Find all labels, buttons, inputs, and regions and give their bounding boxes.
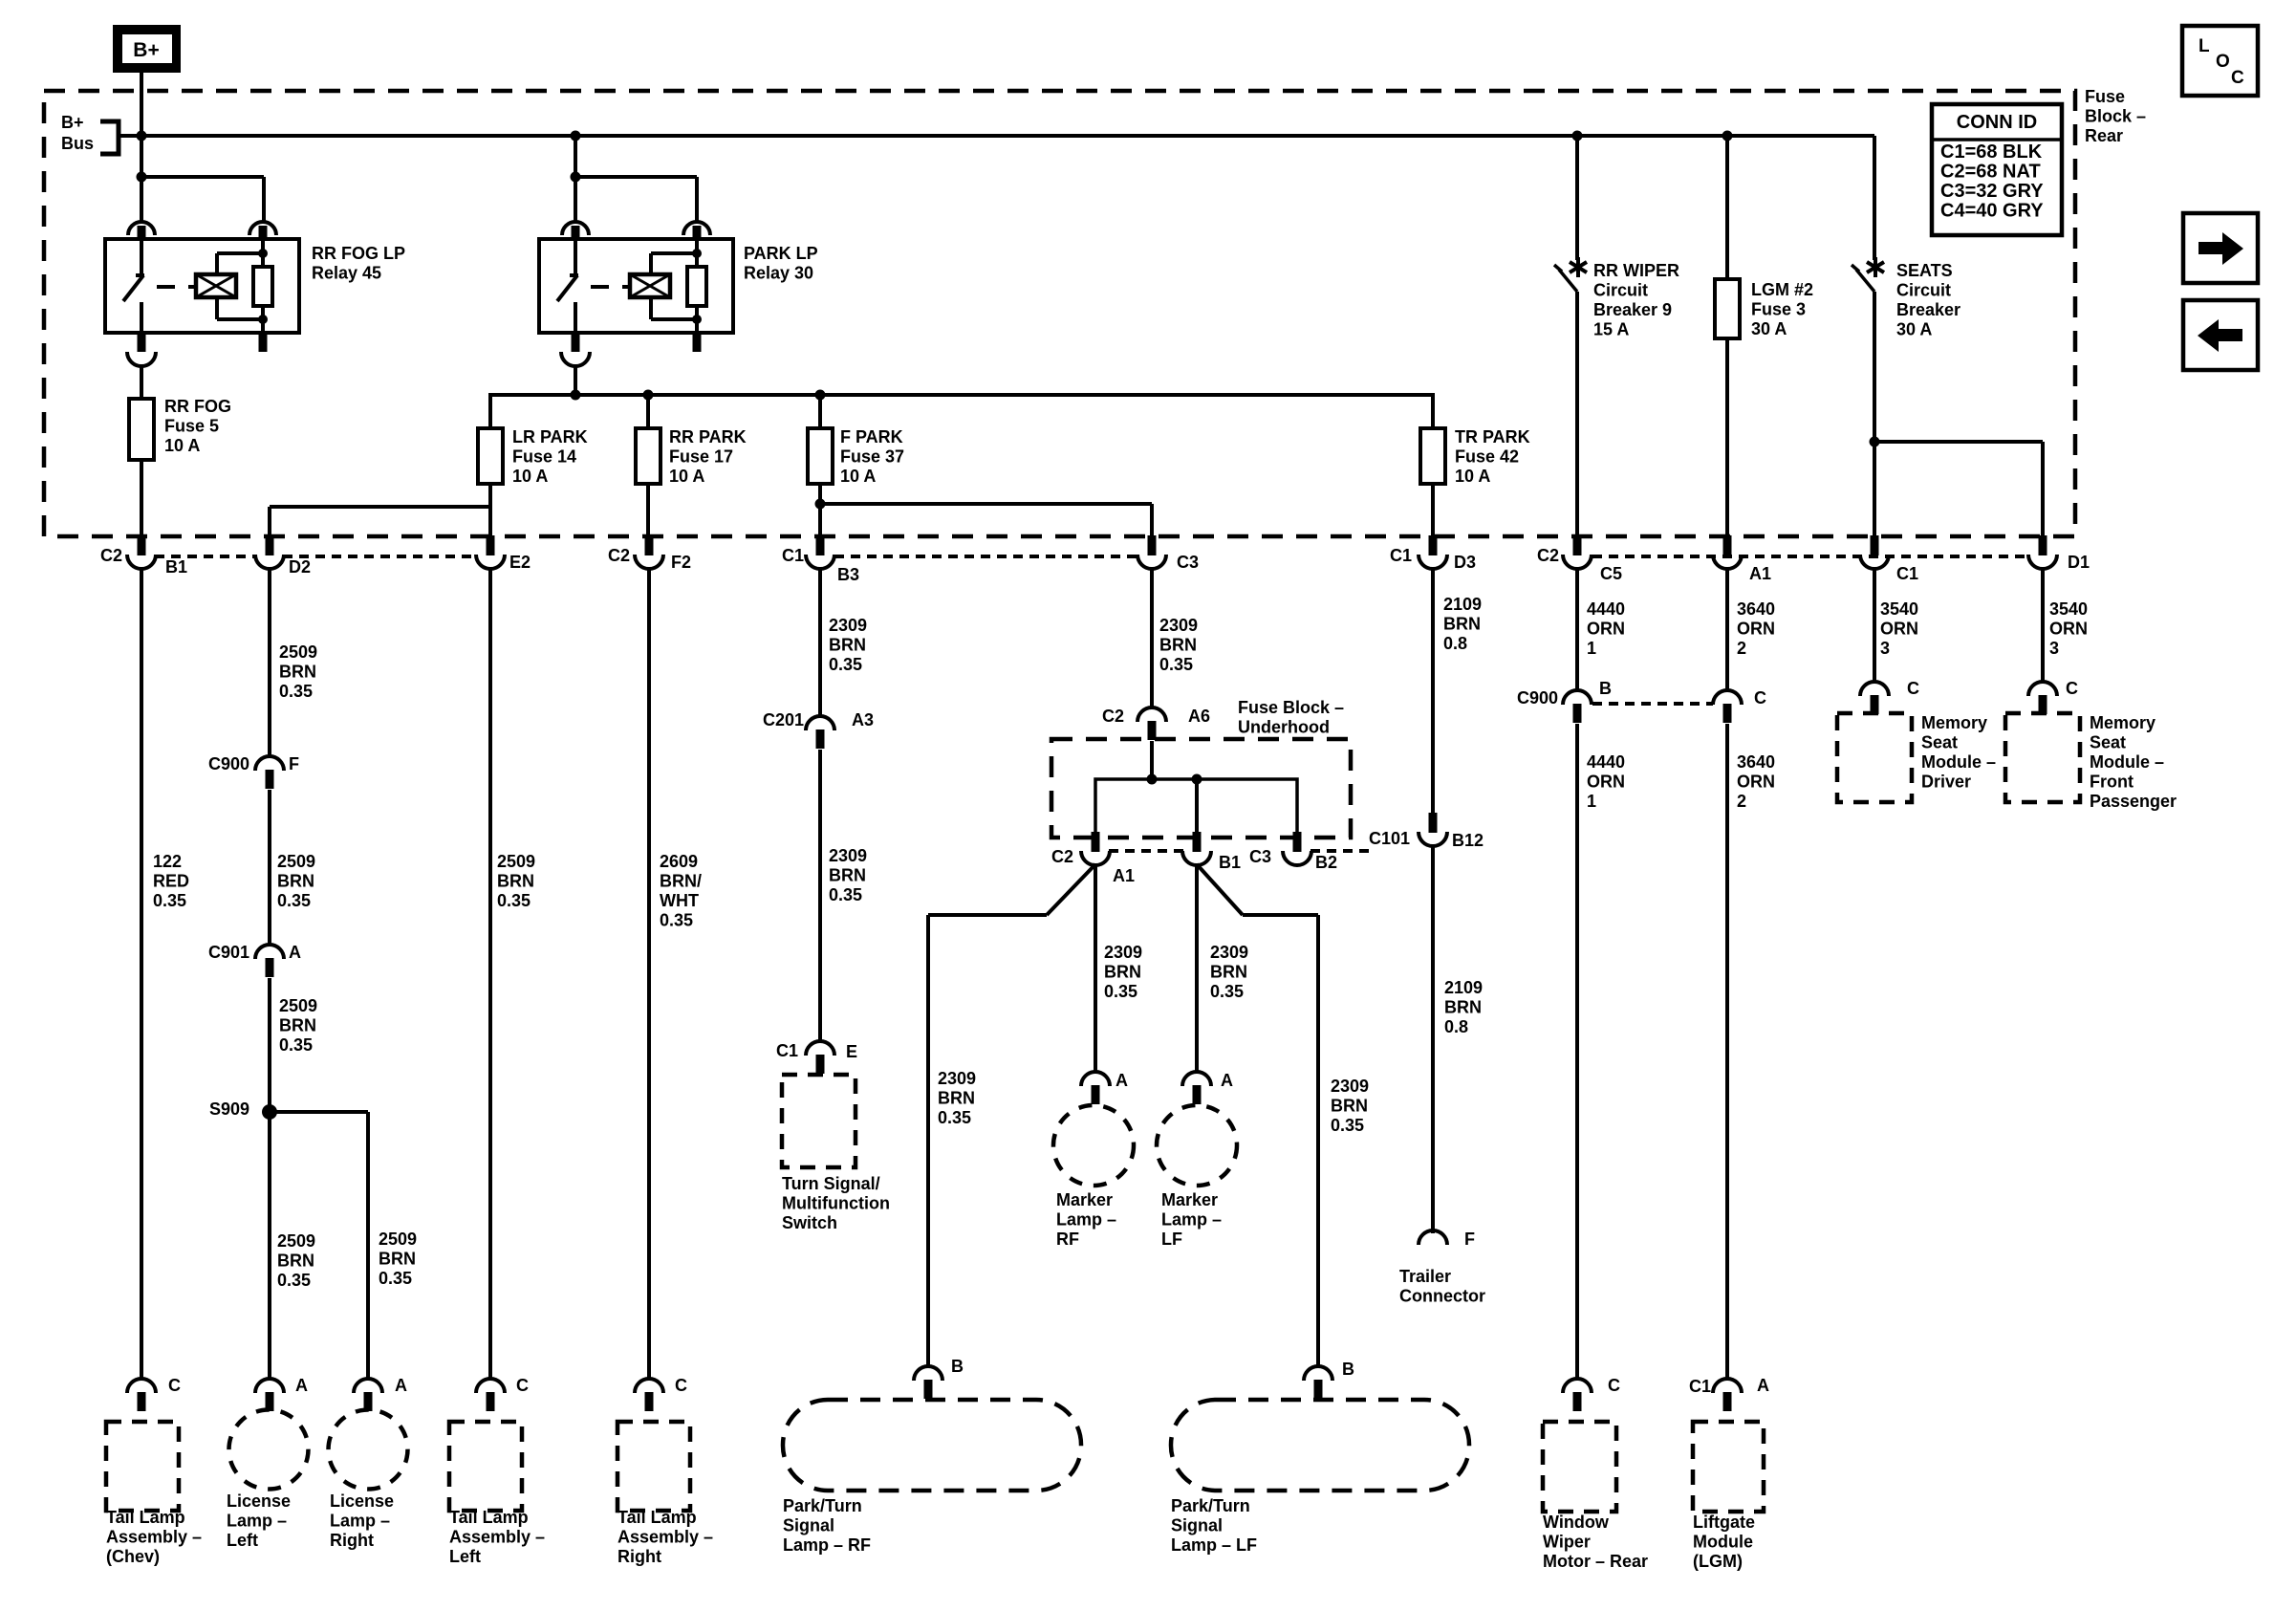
svg-text:Multifunction: Multifunction	[782, 1194, 890, 1213]
svg-text:0.35: 0.35	[277, 891, 311, 910]
wire: fuse 3 to connector A1	[1725, 338, 1729, 536]
svg-text:Passenger: Passenger	[2090, 792, 2177, 811]
connector pin C tail lamp chev	[127, 1379, 156, 1393]
svg-text:LF: LF	[1161, 1230, 1182, 1249]
wire: C5 to C900 B	[1575, 568, 1579, 691]
svg-text:Wiper: Wiper	[1543, 1533, 1591, 1552]
svg-text:0.8: 0.8	[1443, 634, 1467, 653]
svg-text:C2: C2	[1051, 847, 1073, 866]
svg-text:Rear: Rear	[2085, 126, 2123, 145]
svg-text:C2: C2	[100, 546, 122, 565]
svg-text:C1: C1	[1689, 1377, 1711, 1396]
wire: down to connector D1	[2041, 442, 2045, 536]
component Turn Signal/Multifunction Switch	[782, 1075, 856, 1167]
CONN ID table	[1932, 104, 2062, 235]
connector C1 pin D3	[1429, 535, 1438, 555]
svg-text:Tail Lamp: Tail Lamp	[106, 1508, 185, 1527]
svg-text:D2: D2	[289, 557, 311, 577]
connector pin A marker lamp RF	[1081, 1072, 1110, 1086]
svg-text:2309: 2309	[1104, 943, 1142, 962]
connector pin B park/turn RF	[914, 1366, 942, 1381]
wire: bus to fuse 37	[818, 395, 822, 428]
wire: horizontal to park/turn LF	[1243, 913, 1318, 917]
fuse block - underhood dashed box	[1051, 739, 1351, 838]
svg-text:Right: Right	[617, 1547, 661, 1566]
svg-text:2609: 2609	[660, 852, 698, 871]
svg-text:C: C	[516, 1376, 529, 1395]
fuse RR FOG Fuse 5	[129, 399, 154, 460]
svg-text:2109: 2109	[1443, 595, 1482, 614]
connector pin C tail lamp right	[635, 1379, 663, 1393]
junction B+ bus / PARK LP relay feed	[571, 131, 581, 142]
svg-text:0.35: 0.35	[379, 1269, 412, 1288]
connector pin A1	[1723, 535, 1732, 555]
connector pin C window wiper motor	[1563, 1379, 1592, 1393]
svg-text:C2: C2	[1102, 707, 1124, 726]
svg-text:Connector: Connector	[1399, 1287, 1485, 1306]
svg-text:Block –: Block –	[2085, 107, 2146, 126]
svg-text:0.35: 0.35	[829, 655, 862, 674]
svg-text:10 A: 10 A	[164, 436, 200, 455]
svg-text:BRN: BRN	[1331, 1097, 1368, 1116]
svg-text:3540: 3540	[1880, 599, 1918, 619]
svg-text:BRN/: BRN/	[660, 872, 702, 891]
svg-text:Fuse 37: Fuse 37	[840, 447, 904, 467]
svg-text:A: A	[395, 1376, 407, 1395]
wire: S909 branch right	[270, 1110, 368, 1114]
junction underhood bus / B1	[1192, 774, 1202, 785]
svg-text:C901: C901	[208, 943, 249, 962]
svg-text:Assembly –: Assembly –	[106, 1528, 202, 1547]
svg-text:0.35: 0.35	[1210, 982, 1244, 1001]
component Liftgate Module (LGM)	[1693, 1422, 1764, 1512]
svg-text:C1: C1	[776, 1041, 798, 1060]
wire: C901 via S909 to license lamp left	[268, 978, 271, 1380]
connector C2 pin A1 underhood	[1092, 832, 1100, 852]
svg-text:A: A	[295, 1376, 308, 1395]
svg-text:122: 122	[153, 852, 182, 871]
connector C2 pin E2	[487, 535, 495, 555]
svg-text:A6: A6	[1188, 707, 1210, 726]
wire: fuse 17 to connector F2	[646, 484, 650, 536]
wire: down to park/turn RF	[926, 915, 930, 1367]
svg-text:Breaker 9: Breaker 9	[1593, 300, 1672, 319]
junction fuse37 output / C3 branch	[815, 499, 826, 510]
wire: branch to D1	[1874, 440, 2043, 444]
svg-text:2309: 2309	[1210, 943, 1248, 962]
svg-text:A: A	[289, 943, 301, 962]
svg-text:Right: Right	[330, 1531, 374, 1550]
svg-text:Park/Turn: Park/Turn	[783, 1496, 862, 1515]
svg-text:10 A: 10 A	[840, 467, 876, 486]
connector pin A marker lamp LF	[1182, 1072, 1211, 1086]
svg-text:0.8: 0.8	[1444, 1017, 1468, 1036]
svg-text:Bus: Bus	[61, 134, 94, 153]
wire: B+ bus horizontal	[119, 134, 1874, 138]
wire: down to connector C3	[1150, 504, 1154, 536]
svg-text:0.35: 0.35	[153, 891, 186, 910]
svg-text:Park/Turn: Park/Turn	[1171, 1496, 1250, 1515]
svg-text:Assembly –: Assembly –	[617, 1528, 713, 1547]
svg-text:Lamp – RF: Lamp – RF	[783, 1535, 871, 1555]
svg-text:D1: D1	[2068, 553, 2090, 572]
svg-text:BRN: BRN	[1104, 963, 1141, 982]
svg-text:L: L	[2199, 36, 2210, 56]
svg-text:Marker: Marker	[1056, 1190, 1113, 1209]
svg-text:RF: RF	[1056, 1230, 1079, 1249]
B+ bus bar symbol	[100, 121, 119, 154]
wire: D2 branch down to connector D2	[268, 507, 271, 536]
svg-text:2509: 2509	[277, 1231, 315, 1251]
wire: branch to relay45 coil pin	[141, 175, 264, 179]
svg-text:C2=68 NAT: C2=68 NAT	[1940, 162, 2041, 183]
svg-text:2509: 2509	[379, 1230, 417, 1249]
connector C901 pin A	[255, 945, 284, 959]
wire: B1 to marker lamp LF	[1195, 864, 1199, 1073]
junction underhood bus / A6	[1147, 774, 1158, 785]
splice S909	[262, 1104, 277, 1120]
svg-text:C1: C1	[1896, 564, 1918, 583]
svg-text:Signal: Signal	[1171, 1516, 1223, 1535]
fuse LR PARK Fuse 14	[478, 428, 503, 484]
svg-text:RR PARK: RR PARK	[669, 427, 747, 446]
svg-text:0.35: 0.35	[660, 911, 693, 930]
svg-text:Driver: Driver	[1921, 773, 1971, 792]
svg-text:A: A	[1221, 1071, 1233, 1090]
component Tail Lamp Assembly Left	[449, 1422, 522, 1511]
connector C2 pin B1	[138, 535, 146, 555]
svg-text:2509: 2509	[277, 852, 315, 871]
svg-text:2309: 2309	[1159, 616, 1198, 635]
svg-text:0.35: 0.35	[1159, 655, 1193, 674]
svg-text:C1: C1	[782, 546, 804, 565]
svg-text:Memory: Memory	[2090, 713, 2155, 732]
svg-text:2309: 2309	[938, 1069, 976, 1088]
svg-text:2: 2	[1737, 792, 1746, 811]
junction park bus / fuse 17	[643, 390, 654, 401]
svg-text:Seat: Seat	[1921, 733, 1958, 752]
svg-text:C: C	[1907, 679, 1919, 698]
connector C3 pin B2 underhood	[1293, 832, 1302, 852]
svg-text:Fuse: Fuse	[2085, 87, 2125, 106]
connector pin D1	[2039, 535, 2047, 555]
svg-text:Underhood: Underhood	[1238, 718, 1330, 737]
svg-text:B: B	[1599, 679, 1612, 698]
svg-text:A3: A3	[852, 710, 874, 729]
fuse LGM #2 Fuse 3	[1715, 279, 1740, 338]
connector pin C memory seat passenger	[2028, 682, 2057, 696]
svg-text:Fuse 42: Fuse 42	[1455, 447, 1519, 467]
wire: branch to relay30 coil pin	[575, 175, 697, 179]
svg-text:RR WIPER: RR WIPER	[1593, 261, 1679, 280]
svg-text:B1: B1	[165, 557, 187, 577]
svg-text:Fuse 17: Fuse 17	[669, 447, 733, 467]
svg-text:F: F	[1464, 1230, 1475, 1249]
svg-text:BRN: BRN	[1210, 963, 1247, 982]
component Park/Turn Signal Lamp - RF	[783, 1400, 1081, 1491]
svg-text:C: C	[168, 1376, 181, 1395]
svg-text:S909: S909	[209, 1099, 249, 1119]
wire: fuse 42 to connector D3	[1431, 484, 1435, 536]
junction park bus / fuse 37	[815, 390, 826, 401]
svg-text:10 A: 10 A	[512, 467, 548, 486]
svg-text:C3=32 GRY: C3=32 GRY	[1940, 181, 2044, 202]
svg-text:A1: A1	[1749, 564, 1771, 583]
svg-text:10 A: 10 A	[1455, 467, 1490, 486]
svg-text:3540: 3540	[2049, 599, 2088, 619]
svg-text:O: O	[2216, 52, 2230, 72]
wire: A1 diagonal to park/turn RF	[1047, 864, 1095, 915]
component Marker Lamp - RF	[1053, 1105, 1134, 1186]
svg-text:C3: C3	[1177, 553, 1199, 572]
svg-text:10 A: 10 A	[669, 467, 704, 486]
connector C1 pin A liftgate module	[1713, 1379, 1742, 1393]
wire: B12 to trailer connector	[1431, 845, 1435, 1233]
svg-text:Module –: Module –	[1921, 752, 1996, 772]
svg-text:Lamp –: Lamp –	[227, 1512, 287, 1531]
svg-text:BRN: BRN	[938, 1089, 975, 1108]
component License Lamp - Left	[229, 1410, 309, 1490]
svg-text:4440: 4440	[1587, 752, 1625, 772]
connector pin B1 underhood	[1193, 832, 1202, 852]
svg-text:Trailer: Trailer	[1399, 1267, 1451, 1286]
svg-text:BRN: BRN	[1159, 636, 1197, 655]
svg-text:Assembly –: Assembly –	[449, 1528, 545, 1547]
wire: C3 to A6	[1150, 568, 1154, 708]
wire: bus to relay45 left pin	[140, 136, 143, 222]
svg-text:C201: C201	[763, 710, 804, 729]
fuse RR PARK Fuse 17	[636, 428, 661, 484]
wire: relay30 output down	[574, 366, 577, 395]
svg-text:B+: B+	[133, 39, 159, 61]
relay RR FOG LP Relay 45	[105, 222, 299, 366]
svg-text:A: A	[1116, 1071, 1128, 1090]
svg-text:Liftgate: Liftgate	[1693, 1513, 1755, 1532]
underhood connector row fine dashes	[1109, 849, 1183, 853]
svg-text:30 A: 30 A	[1751, 319, 1787, 338]
svg-text:Turn Signal/: Turn Signal/	[782, 1174, 880, 1193]
connector C201 pin A3	[806, 716, 834, 730]
svg-text:C5: C5	[1600, 564, 1622, 583]
svg-text:Tail Lamp: Tail Lamp	[617, 1508, 697, 1527]
wire: C1 to memory seat driver C	[1873, 568, 1876, 683]
svg-text:Module –: Module –	[2090, 752, 2164, 772]
svg-text:TR PARK: TR PARK	[1455, 427, 1530, 446]
svg-text:Relay 30: Relay 30	[744, 264, 813, 283]
svg-text:2309: 2309	[829, 616, 867, 635]
svg-text:C4=40 GRY: C4=40 GRY	[1940, 201, 2044, 222]
svg-text:C2: C2	[1537, 546, 1559, 565]
wire: D1 to memory seat passenger C	[2041, 568, 2045, 683]
svg-text:License: License	[330, 1491, 394, 1511]
connector pin A license lamp right	[354, 1379, 382, 1393]
svg-text:Memory: Memory	[1921, 713, 1987, 732]
B+ power feed box	[113, 25, 181, 73]
svg-text:1: 1	[1587, 639, 1596, 658]
wire: branch to C3	[820, 502, 1152, 506]
wire: down to relay30 right pin	[695, 177, 699, 222]
connector pin B park/turn LF	[1304, 1366, 1332, 1381]
wire: bus to fuse 17	[646, 395, 650, 428]
svg-text:C: C	[1754, 688, 1766, 708]
circuit breaker RR WIPER Breaker 9	[1554, 257, 1587, 292]
wire: horizontal to park/turn RF	[928, 913, 1047, 917]
wire: B3 to C201	[818, 568, 822, 717]
svg-text:Left: Left	[227, 1531, 258, 1550]
circuit breaker SEATS 30 A	[1852, 257, 1884, 292]
junction B+ bus / RR WIPER breaker feed	[1572, 131, 1583, 142]
svg-text:3: 3	[2049, 639, 2059, 658]
svg-text:BRN: BRN	[829, 636, 866, 655]
svg-text:BRN: BRN	[829, 866, 866, 885]
svg-text:Fuse 14: Fuse 14	[512, 447, 576, 467]
svg-text:Tail Lamp: Tail Lamp	[449, 1508, 529, 1527]
svg-text:2109: 2109	[1444, 978, 1483, 997]
wire: park lamp feed bus	[490, 395, 1433, 428]
wire: branch to license lamp right	[366, 1112, 370, 1380]
wire: E2 to tail lamp assembly left	[488, 568, 492, 1380]
svg-text:Module: Module	[1693, 1533, 1753, 1552]
svg-text:3640: 3640	[1737, 752, 1775, 772]
svg-text:F PARK: F PARK	[840, 427, 903, 446]
svg-text:ORN: ORN	[2049, 620, 2088, 639]
component Window Wiper Motor - Rear	[1543, 1422, 1616, 1512]
svg-text:E: E	[846, 1042, 857, 1061]
svg-text:B: B	[951, 1357, 964, 1376]
svg-text:0.35: 0.35	[279, 1035, 313, 1055]
svg-text:1: 1	[1587, 792, 1596, 811]
svg-text:C2: C2	[608, 546, 630, 565]
svg-text:0.35: 0.35	[279, 682, 313, 701]
wire: fuse 37 to connector B3	[818, 484, 822, 536]
connector C1 pin B3	[816, 535, 825, 555]
svg-text:C: C	[2066, 679, 2078, 698]
wire: fuse 5 to connector B1	[140, 460, 143, 536]
svg-text:3: 3	[1880, 639, 1890, 658]
svg-text:LR PARK: LR PARK	[512, 427, 588, 446]
svg-text:Fuse 5: Fuse 5	[164, 417, 219, 436]
svg-text:C: C	[1608, 1376, 1620, 1395]
svg-text:2309: 2309	[1331, 1077, 1369, 1096]
junction SEATS output / D1 branch	[1870, 437, 1880, 447]
svg-text:C900: C900	[208, 754, 249, 773]
svg-text:ORN: ORN	[1587, 620, 1625, 639]
connector row fine dashed lines	[155, 555, 256, 558]
svg-text:Front: Front	[2090, 773, 2134, 792]
component Tail Lamp Assembly (Chev)	[106, 1422, 179, 1511]
svg-text:A: A	[1757, 1376, 1769, 1395]
svg-text:Lamp –: Lamp –	[1056, 1210, 1116, 1230]
wire: F2 to tail lamp assembly right	[647, 568, 651, 1380]
svg-text:D3: D3	[1454, 553, 1476, 572]
wire: fuse 14 to connector E2	[488, 484, 492, 536]
svg-text:Fuse 3: Fuse 3	[1751, 300, 1806, 319]
svg-text:Window: Window	[1543, 1513, 1610, 1532]
svg-text:E2: E2	[509, 553, 531, 572]
wire: A1 to marker lamp RF	[1094, 864, 1097, 1073]
svg-text:2: 2	[1737, 639, 1746, 658]
wire: D2 branch horizontal	[270, 505, 490, 509]
connector C2 pin C5	[1573, 535, 1582, 555]
wire: underhood bus to B1	[1195, 779, 1199, 832]
svg-text:C900: C900	[1517, 688, 1558, 708]
svg-text:15 A: 15 A	[1593, 320, 1629, 339]
svg-text:BRN: BRN	[279, 663, 316, 682]
svg-text:LGM #2: LGM #2	[1751, 280, 1813, 299]
svg-text:SEATS: SEATS	[1896, 261, 1953, 280]
svg-text:B: B	[1342, 1360, 1354, 1379]
connector pin F trailer	[1419, 1230, 1447, 1245]
svg-text:RR FOG LP: RR FOG LP	[312, 244, 405, 263]
component Park/Turn Signal Lamp - LF	[1171, 1400, 1469, 1491]
wire: B+ box down to bus	[140, 73, 143, 136]
connector C1 pin E	[806, 1041, 834, 1056]
fuse TR PARK Fuse 42	[1420, 428, 1445, 484]
wire: down to park/turn LF	[1316, 915, 1320, 1367]
svg-text:CONN ID: CONN ID	[1957, 112, 2037, 133]
svg-text:2509: 2509	[497, 852, 535, 871]
svg-text:BRN: BRN	[277, 872, 314, 891]
LOC reference box	[2182, 26, 2258, 96]
fuse F PARK Fuse 37	[808, 428, 833, 484]
svg-text:ORN: ORN	[1587, 773, 1625, 792]
wire: bus to relay30 left pin	[574, 136, 577, 222]
connector pin A license lamp left	[255, 1379, 284, 1393]
wire: A1 to C900 C	[1725, 568, 1729, 691]
svg-text:(LGM): (LGM)	[1693, 1552, 1743, 1571]
svg-text:ORN: ORN	[1737, 773, 1775, 792]
svg-text:Marker: Marker	[1161, 1190, 1218, 1209]
component Tail Lamp Assembly Right	[617, 1422, 690, 1511]
svg-text:30 A: 30 A	[1896, 320, 1932, 339]
svg-text:3640: 3640	[1737, 599, 1775, 619]
svg-text:2309: 2309	[829, 846, 867, 865]
svg-text:BRN: BRN	[497, 872, 534, 891]
wire: D3 to C101	[1431, 568, 1435, 813]
svg-text:4440: 4440	[1587, 599, 1625, 619]
svg-text:A1: A1	[1113, 866, 1135, 885]
connector C900 pin F	[255, 756, 284, 771]
svg-text:Breaker: Breaker	[1896, 300, 1960, 319]
junction B+ bus / LGM fuse feed	[1722, 131, 1733, 142]
svg-text:B12: B12	[1452, 831, 1484, 850]
connector C2 pin A6	[1137, 708, 1166, 722]
svg-text:ORN: ORN	[1880, 620, 1918, 639]
svg-text:C: C	[2231, 68, 2244, 88]
wire: D2 down to C900	[268, 568, 271, 757]
component Marker Lamp - LF	[1157, 1105, 1237, 1186]
svg-text:C3: C3	[1249, 847, 1271, 866]
svg-text:BRN: BRN	[1443, 615, 1481, 634]
svg-text:0.35: 0.35	[1104, 982, 1137, 1001]
svg-text:C101: C101	[1369, 829, 1410, 848]
svg-text:Seat: Seat	[2090, 733, 2126, 752]
svg-text:2509: 2509	[279, 642, 317, 662]
svg-text:Circuit: Circuit	[1593, 281, 1648, 300]
svg-text:BRN: BRN	[277, 1252, 314, 1271]
svg-text:BRN: BRN	[379, 1250, 416, 1269]
svg-text:0.35: 0.35	[1331, 1116, 1364, 1135]
svg-text:BRN: BRN	[1444, 998, 1482, 1017]
left arrow box	[2183, 300, 2258, 370]
connector pin C memory seat driver	[1860, 682, 1889, 696]
svg-text:Lamp –: Lamp –	[1161, 1210, 1222, 1230]
connector C3 pin C3	[1148, 535, 1157, 555]
svg-text:Fuse Block –: Fuse Block –	[1238, 698, 1344, 717]
right arrow box	[2183, 213, 2258, 283]
wire: relay45 output to fuse 5	[140, 366, 143, 399]
svg-text:Motor – Rear: Motor – Rear	[1543, 1552, 1648, 1571]
